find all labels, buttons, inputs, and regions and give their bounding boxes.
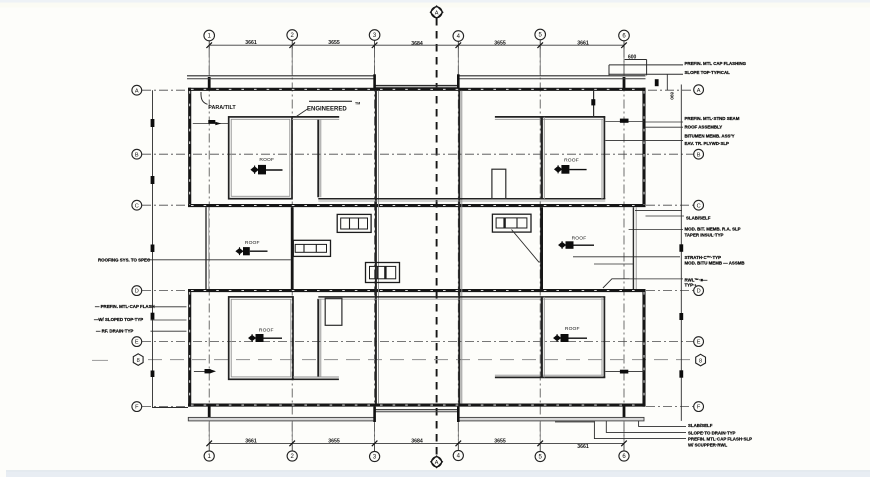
svg-text:D: D — [135, 289, 139, 295]
svg-text:3655: 3655 — [494, 40, 506, 46]
svg-text:— RF. DRAIN·TYP: — RF. DRAIN·TYP — [96, 328, 133, 333]
svg-text:C: C — [135, 203, 139, 209]
svg-text:TAPER INSUL·TYP: TAPER INSUL·TYP — [685, 233, 724, 238]
svg-text:600: 600 — [628, 55, 637, 61]
svg-text:MOD. BIT. MEMB. R.A. SLP: MOD. BIT. MEMB. R.A. SLP — [685, 227, 741, 232]
svg-text:F: F — [135, 405, 139, 411]
svg-text:ROOF: ROOF — [565, 326, 580, 332]
svg-text:PREFIN. MTL CAP FLASHING: PREFIN. MTL CAP FLASHING — [685, 61, 747, 66]
svg-text:A: A — [135, 88, 139, 94]
svg-text:3684: 3684 — [411, 41, 423, 47]
svg-text:BITUMEN MEMB. ASS’Y: BITUMEN MEMB. ASS’Y — [685, 133, 735, 138]
svg-text:3655: 3655 — [494, 438, 506, 444]
svg-text:E: E — [697, 340, 701, 346]
svg-text:ROOF: ROOF — [259, 328, 274, 334]
svg-text:3655: 3655 — [328, 438, 340, 444]
svg-text:TYP·▪: TYP·▪ — [685, 283, 697, 288]
svg-text:STRATH·C™·TYP: STRATH·C™·TYP — [685, 255, 722, 260]
svg-text:B: B — [135, 152, 139, 158]
svg-text:A: A — [435, 10, 439, 16]
svg-text:— PREFIN. MTL·CAP FLASH: — PREFIN. MTL·CAP FLASH — [95, 304, 155, 309]
svg-text:8: 8 — [137, 358, 140, 364]
svg-text:3661: 3661 — [577, 444, 589, 450]
svg-text:F: F — [697, 405, 701, 411]
svg-text:W/ SCUPPER·RWL: W/ SCUPPER·RWL — [688, 442, 728, 447]
svg-text:ROOF: ROOF — [572, 236, 587, 242]
svg-text:PREFIN. MTL·CAP FLASH·SLP: PREFIN. MTL·CAP FLASH·SLP — [688, 437, 752, 442]
svg-text:3661: 3661 — [245, 40, 257, 46]
svg-text:PREFIN. MTL·STND SEAM: PREFIN. MTL·STND SEAM — [685, 116, 740, 121]
svg-text:B: B — [697, 152, 701, 158]
svg-text:3661: 3661 — [245, 438, 257, 444]
svg-text:A: A — [435, 460, 439, 466]
svg-text:ROOF: ROOF — [245, 240, 260, 246]
svg-text:PARA/TILT: PARA/TILT — [208, 105, 236, 111]
svg-text:D: D — [697, 289, 701, 295]
svg-text:ROOF ASSEMBLY: ROOF ASSEMBLY — [685, 124, 723, 129]
svg-text:ENGINEERED: ENGINEERED — [307, 106, 347, 112]
svg-text:890: 890 — [670, 92, 675, 100]
svg-text:ROOFING SYS. TO SPEC: ROOFING SYS. TO SPEC — [98, 257, 151, 262]
svg-text:SLOPE·TO DRAIN·TYP: SLOPE·TO DRAIN·TYP — [688, 430, 736, 435]
svg-text:EAV. TR. PLYWD·SLP: EAV. TR. PLYWD·SLP — [685, 141, 730, 146]
svg-text:―W/ SLOPED TOP·TYP: ―W/ SLOPED TOP·TYP — [94, 317, 143, 322]
svg-text:E: E — [135, 340, 139, 346]
svg-text:8: 8 — [699, 358, 702, 364]
svg-text:3684: 3684 — [411, 438, 423, 444]
svg-text:3655: 3655 — [328, 40, 340, 46]
svg-text:ROOF: ROOF — [564, 158, 579, 164]
svg-text:MOD. BITU MEMB — ASSMB: MOD. BITU MEMB — ASSMB — [685, 261, 745, 266]
svg-text:TM: TM — [355, 102, 360, 106]
svg-text:SLAB/SELF: SLAB/SELF — [686, 215, 711, 220]
svg-text:ROOF: ROOF — [259, 157, 274, 163]
svg-text:3661: 3661 — [577, 40, 589, 46]
svg-text:SLAB/SELF: SLAB/SELF — [688, 423, 713, 428]
svg-text:A: A — [697, 88, 701, 94]
svg-text:SLOPE TOP·TYPICAL: SLOPE TOP·TYPICAL — [685, 70, 731, 75]
svg-text:C: C — [697, 203, 701, 209]
